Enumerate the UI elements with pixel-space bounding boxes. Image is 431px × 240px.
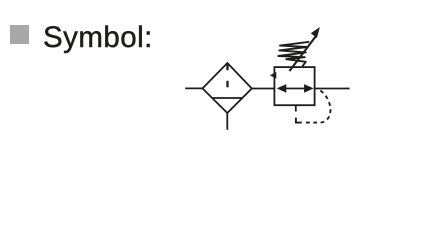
adjustment arrow shaft — [290, 36, 316, 71]
flow double-arrow inside regulator — [283, 88, 306, 90]
pilot dashed feedback line corner — [296, 118, 302, 123]
water trap chord — [212, 97, 242, 99]
drain line — [226, 113, 228, 130]
filter F1 diamond — [203, 63, 252, 113]
bullet square — [10, 25, 29, 44]
wire filter to regulator — [252, 88, 274, 90]
label "Symbol:" — [43, 21, 153, 55]
pilot tick below box — [295, 105, 297, 112]
wire outlet pipe — [314, 88, 349, 90]
adjustment arrowhead — [311, 27, 320, 38]
relief vent arrow — [270, 72, 277, 79]
wire inlet pipe — [185, 87, 202, 89]
spring zigzag — [278, 42, 308, 66]
regulator R1 box — [274, 67, 314, 105]
filter element dashed line — [226, 64, 228, 87]
pilot dashed feedback line — [306, 90, 330, 123]
